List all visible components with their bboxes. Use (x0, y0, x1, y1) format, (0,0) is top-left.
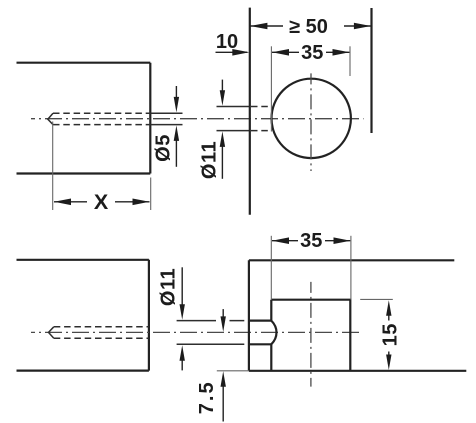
arrowhead left of >=50 (250, 23, 267, 30)
X dim extension line left (52, 122, 54, 211)
arrowhead left of 35 (bottom) (272, 237, 289, 244)
svg-text:10: 10 (216, 31, 238, 53)
arrowhead left of X (54, 199, 71, 206)
centerline (bottom view bolt axis) (31, 331, 362, 333)
X dim extension line right (150, 178, 152, 211)
drill tip chevron (bottom view) (49, 327, 54, 338)
svg-text:≥ 50: ≥ 50 (289, 16, 328, 38)
hidden Ø5 pilot hole dashed lines (top view) (53, 113, 150, 124)
Ø35 cup circle (272, 79, 351, 158)
svg-text:7.5: 7.5 (196, 380, 218, 414)
arrowhead right of 35 (top) (333, 49, 350, 56)
svg-text:15: 15 (380, 323, 402, 346)
7.5 upper arrow pointing down to centerline (222, 309, 224, 317)
svg-text:Ø11: Ø11 (158, 268, 180, 306)
Ø5 upper arrow pointing down (175, 86, 177, 98)
dimension line X (54, 201, 150, 203)
hidden Ø5 pilot hole dashed lines (bottom view) (54, 327, 149, 338)
arrowhead right of >=50 (354, 23, 371, 30)
Ø11 bolt sleeve lines (bottom view, gap where 7.5 arrow crosses) (177, 321, 245, 345)
housing vertical centerline (310, 282, 312, 387)
Ø5 lower arrow pointing up (175, 140, 177, 167)
svg-text:35: 35 (301, 42, 323, 64)
svg-text:35: 35 (300, 230, 322, 252)
panel 2 section outline (bottom view) (249, 260, 466, 371)
arrowhead right of 35 (bottom) (334, 237, 351, 244)
panel 1 outline (bottom view) (17, 260, 149, 371)
circle vertical centerline (310, 73, 312, 171)
15 dim extension line (top of housing) (360, 298, 393, 300)
extension line left of 35 (bottom) (270, 236, 272, 300)
dimension line 10 with right arrow (216, 51, 248, 53)
Ø5 bolt stub solid lines (top view) (150, 113, 182, 124)
Ø11 lower arrow pointing up (bottom view) (181, 360, 183, 371)
panel 2 front edge line (top view) (249, 8, 251, 215)
arrowhead of 10 (232, 49, 249, 56)
extension line right of 35 (top) (349, 46, 351, 76)
panel 1 outline (top view) (17, 63, 151, 174)
dimension line 35 (top) (272, 51, 349, 53)
Ø11 upper arrow pointing down (bottom view) (181, 267, 183, 305)
15 lower arrow pointing down (388, 352, 390, 356)
extension line right of 35 (bottom) (350, 236, 352, 300)
svg-text:Ø11: Ø11 (199, 141, 221, 179)
drill tip chevron (top view) (48, 113, 53, 124)
extension line left of 35 (top) (270, 46, 272, 131)
15 upper arrow pointing up (388, 315, 390, 321)
centerline (top view, bolt axis through circle) (31, 118, 364, 120)
dimension line 35 (bottom) (272, 240, 350, 242)
panel 2 back edge line (top view) (370, 8, 372, 133)
Ø11 sleeve solid lines (top view) (217, 107, 250, 131)
7.5 dim extension line (panel 2 bottom edge extended) (217, 370, 249, 372)
Ø11 lower arrow pointing up (top view) (221, 146, 223, 179)
Ø11 upper arrow pointing down (top view) (221, 80, 223, 91)
housing (cup) outline with bolt-head arc notch (271, 300, 350, 371)
dimension line >=50 (251, 25, 371, 27)
arrowhead left of 35 (top) (272, 49, 289, 56)
svg-text:Ø5: Ø5 (153, 134, 175, 162)
7.5 lower arrow pointing up to bottom edge (222, 386, 224, 422)
Ø11 hole walls through panel 2 edge (249, 321, 271, 345)
arrowhead right of X (133, 199, 150, 206)
Ø11 hidden dashed lines inside panel 2 (top view) (251, 107, 271, 131)
svg-text:X: X (94, 190, 109, 214)
